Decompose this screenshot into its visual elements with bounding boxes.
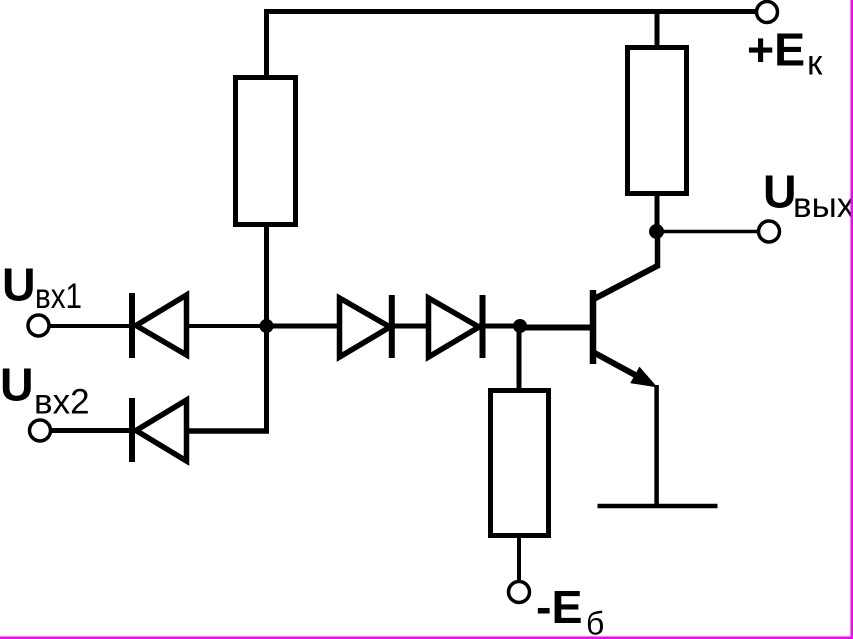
wire top rail from R1 to +Ek terminal [264,9,756,14]
resistor R1 [236,78,296,225]
wire from top rail down to R1 [264,9,269,77]
svg-text:вх1: вх1 [35,277,82,316]
svg-text:вх2: вх2 [34,383,90,422]
diode VD2 cathode bar [129,398,135,462]
node B junction dot [513,319,527,333]
terminal Uvyh [759,221,780,242]
wire from node C to Uvyh terminal [660,230,758,234]
diode VD4 cathode bar [480,295,486,358]
diode VD3 cathode bar [389,295,395,358]
wire from Uvx2 terminal to diode VD2 [51,428,131,433]
wire from VD2 to vertical branch of node A [187,428,270,434]
svg-text:U: U [763,166,797,218]
node A junction dot [260,319,274,333]
wire from node A to diode VD3 [266,324,341,329]
wire from Uvx1 terminal to diode VD1 [49,324,131,328]
border bottom magenta [0,637,853,639]
label -Eb [536,581,604,639]
terminal Uvx2 [30,420,51,441]
node C junction dot [649,224,664,239]
transistor VT1 emitter arrowhead [632,368,655,386]
wire from node B down to R2 [517,326,522,390]
wire from R3 down to output node C [655,195,660,230]
wire from top rail down to R3 [655,9,660,47]
transistor VT1 base bar [590,290,597,364]
diode VD2 triangle [136,400,187,461]
svg-text:U: U [0,359,34,411]
wire from VD1 to node A [187,324,267,328]
svg-text:б: б [586,606,604,639]
terminal +Ek [757,2,778,23]
label +Ek [747,24,823,83]
diode VD1 triangle [136,295,187,355]
wire from emitter arrow down to ground [654,385,659,506]
svg-text:-E: -E [536,581,583,633]
wire from R1 down to input node A [264,226,269,433]
wire from node B to transistor base [519,325,590,331]
diode VD4 triangle [429,298,480,357]
wire between VD3 and VD4 [390,324,430,329]
diode VD3 triangle [340,298,391,357]
diode VD1 cathode bar [129,293,135,358]
transistor VT1 collector vertical wire [655,229,661,268]
transistor VT1 emitter diagonal [592,352,648,383]
resistor R3 [628,48,687,194]
wire from VD4 to node B [479,324,520,329]
label Uvyh [763,166,853,226]
resistor R2 [491,391,549,536]
wire from R2 down to -Eb terminal [517,537,521,581]
terminal -Eb [509,582,530,603]
svg-text:к: к [807,44,823,83]
transistor VT1 collector diagonal [592,266,658,301]
terminal Uvx1 [28,315,49,336]
label Uvx1 [2,259,82,317]
label Uvx2 [0,359,90,422]
border right magenta [851,0,853,639]
svg-text:U: U [2,259,36,311]
svg-text:+E: +E [747,24,805,76]
ground [598,504,718,509]
svg-text:вых: вых [793,186,853,225]
